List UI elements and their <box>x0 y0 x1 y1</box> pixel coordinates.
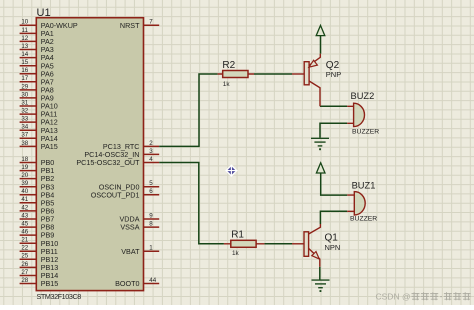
svg-text:Q1: Q1 <box>325 232 339 243</box>
svg-text:39: 39 <box>21 180 28 187</box>
svg-text:15: 15 <box>21 59 28 66</box>
svg-text:BUZZER: BUZZER <box>350 216 377 223</box>
svg-text:11: 11 <box>22 27 29 34</box>
svg-text:1k: 1k <box>223 81 231 88</box>
svg-text:18: 18 <box>21 156 28 163</box>
svg-text:40: 40 <box>21 188 28 195</box>
svg-text:OSCOUT_PD1: OSCOUT_PD1 <box>91 190 140 199</box>
svg-text:9: 9 <box>149 212 153 219</box>
svg-text:44: 44 <box>149 277 156 284</box>
svg-text:29: 29 <box>21 83 28 90</box>
svg-text:28: 28 <box>21 277 28 284</box>
svg-text:PNP: PNP <box>326 70 341 79</box>
svg-text:U1: U1 <box>37 7 51 19</box>
svg-text:13: 13 <box>21 43 28 50</box>
svg-text:42: 42 <box>21 204 28 211</box>
svg-text:1k: 1k <box>232 250 240 257</box>
svg-text:30: 30 <box>21 91 28 98</box>
svg-text:41: 41 <box>21 196 28 203</box>
svg-text:19: 19 <box>21 164 28 171</box>
svg-text:17: 17 <box>21 75 28 82</box>
svg-text:27: 27 <box>21 269 28 276</box>
svg-text:BUZZER: BUZZER <box>352 129 379 136</box>
svg-text:45: 45 <box>21 221 28 228</box>
svg-text:5: 5 <box>149 180 153 187</box>
svg-text:PB15: PB15 <box>41 279 59 288</box>
svg-text:2: 2 <box>149 140 153 147</box>
svg-text:7: 7 <box>149 19 153 26</box>
svg-text:PC15-OSC32_OUT: PC15-OSC32_OUT <box>76 158 140 167</box>
svg-text:43: 43 <box>21 212 28 219</box>
svg-text:CSDN @: CSDN @ <box>376 291 411 301</box>
svg-text:PA15: PA15 <box>41 142 58 151</box>
svg-text:R1: R1 <box>231 230 244 241</box>
svg-text:NRST: NRST <box>120 21 140 30</box>
svg-text:16: 16 <box>21 67 28 74</box>
svg-text:32: 32 <box>21 108 28 115</box>
svg-text:31: 31 <box>21 99 28 106</box>
svg-text:46: 46 <box>21 229 28 236</box>
svg-text:14: 14 <box>21 51 28 58</box>
svg-text:4: 4 <box>149 156 153 163</box>
svg-text:22: 22 <box>21 245 28 252</box>
svg-text:38: 38 <box>21 140 28 147</box>
svg-text:12: 12 <box>21 35 28 42</box>
svg-text:21: 21 <box>21 237 28 244</box>
svg-text:25: 25 <box>21 253 28 260</box>
svg-text:VBAT: VBAT <box>121 247 140 256</box>
svg-text:NPN: NPN <box>325 243 341 252</box>
svg-text:BUZ1: BUZ1 <box>352 180 376 190</box>
svg-text:26: 26 <box>21 261 28 268</box>
svg-text:6: 6 <box>149 188 153 195</box>
svg-text:3: 3 <box>149 148 153 155</box>
svg-text:34: 34 <box>21 124 28 131</box>
svg-text:8: 8 <box>149 221 153 228</box>
svg-text:33: 33 <box>21 116 28 123</box>
svg-text:10: 10 <box>21 19 28 26</box>
svg-text:BOOT0: BOOT0 <box>115 279 139 288</box>
svg-text:BUZ2: BUZ2 <box>351 91 375 101</box>
svg-text:STM32F103C8: STM32F103C8 <box>37 292 82 301</box>
svg-text:R2: R2 <box>222 60 235 71</box>
svg-text:20: 20 <box>21 172 28 179</box>
svg-text:1: 1 <box>149 245 153 252</box>
svg-text:VSSA: VSSA <box>120 223 139 232</box>
svg-text:37: 37 <box>21 132 28 139</box>
